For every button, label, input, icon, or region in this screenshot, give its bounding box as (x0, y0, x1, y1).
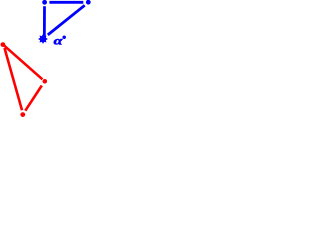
blue triangle left edge A-C (43, 6, 46, 38)
vertex dot R3 (20, 112, 25, 117)
svg-text:α: α (54, 33, 63, 47)
degree sign of angle label (62, 36, 66, 40)
star vertex C (38, 34, 48, 44)
blue triangle top edge A-B (49, 1, 83, 4)
red triangle edge R2-R3 (25, 86, 42, 111)
vertex dot R2 (43, 79, 48, 84)
blue triangle hypotenuse C-B (48, 5, 85, 35)
red triangle edge R1-R2 (4, 46, 42, 80)
vertex dot R1 (1, 42, 6, 47)
vertex dot A (42, 0, 47, 5)
vertex dot B (86, 0, 91, 5)
red triangle edge R1-R3 (5, 48, 23, 110)
